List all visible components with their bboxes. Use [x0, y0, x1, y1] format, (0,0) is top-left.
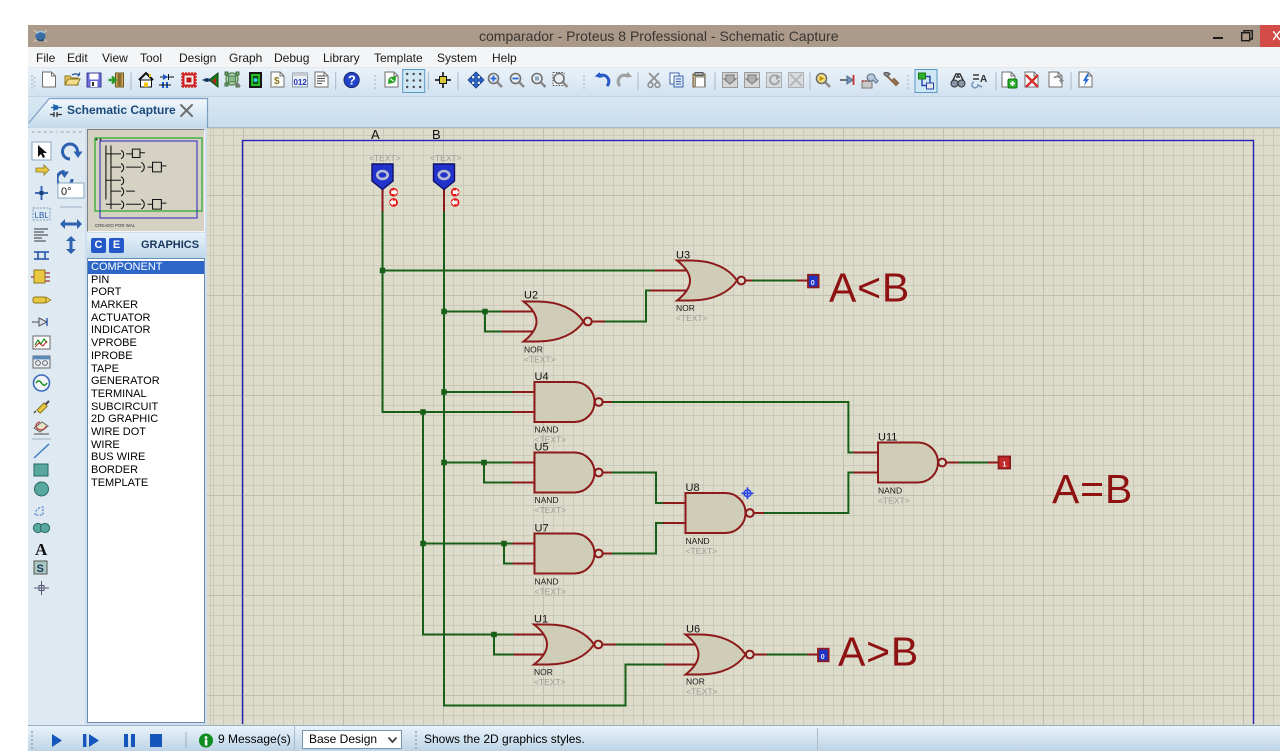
svg-text:U6: U6: [686, 624, 700, 636]
wire U1 input2 L: [494, 635, 514, 655]
junction node B to U2: [441, 309, 447, 315]
wire B to U2 inputs: [444, 311, 502, 313]
svg-text:<TEXT>: <TEXT>: [524, 355, 556, 365]
pin stubs U11: [854, 452, 879, 454]
svg-text:NAND: NAND: [686, 536, 710, 546]
junction node B to U5: [441, 460, 447, 466]
svg-text:<TEXT>: <TEXT>: [534, 677, 566, 687]
NAND gate U5: [535, 442, 603, 516]
pin stub terminal B: [443, 189, 445, 212]
svg-text:NAND: NAND: [535, 577, 559, 587]
svg-text:<TEXT>: <TEXT>: [535, 505, 567, 515]
svg-text:<TEXT>: <TEXT>: [535, 587, 567, 597]
pin stubs U8: [663, 502, 686, 504]
wire U5 output to U8 input1: [612, 473, 663, 504]
pin stub terminal A: [382, 189, 384, 212]
wire U5 input2 L: [484, 463, 513, 483]
svg-text:<TEXT>: <TEXT>: [686, 687, 718, 697]
logic state input B: [434, 164, 455, 190]
NOR gate U6: [686, 624, 754, 697]
wire U4 output to U11 input1: [612, 402, 854, 453]
svg-text:A>B: A>B: [838, 629, 919, 675]
NOR gate U2: [524, 290, 592, 365]
svg-text:B: B: [432, 127, 441, 142]
pin stubs U5: [513, 462, 535, 464]
wire U7 input feed: [423, 543, 513, 545]
NAND gate U8: [686, 482, 754, 556]
svg-text:NAND: NAND: [878, 486, 902, 496]
NAND gate U4: [535, 371, 603, 445]
svg-text:NOR: NOR: [534, 667, 553, 677]
svg-text:NOR: NOR: [676, 303, 695, 313]
svg-text:U4: U4: [535, 371, 549, 383]
pin stubs U1: [514, 634, 547, 636]
junction node U1 input pair: [491, 632, 497, 638]
junction node U7 input pair: [501, 541, 507, 547]
svg-text:<TEXT>: <TEXT>: [878, 496, 910, 506]
pin stub probe A>B: [808, 654, 819, 656]
wire U6 output to probe A>B: [767, 654, 808, 656]
svg-text:<TEXT>: <TEXT>: [676, 313, 708, 323]
pin stub probe A=B: [988, 462, 999, 464]
NAND gate U11: [878, 432, 946, 506]
NOR gate U3: [676, 250, 745, 324]
logic state input A: [372, 164, 393, 190]
junction node U2 input pair: [482, 309, 488, 315]
svg-text:U11: U11: [878, 432, 897, 444]
wire U8 output to U11 input2: [764, 473, 854, 514]
pin stubs U2: [502, 311, 536, 313]
marker arrows A: [389, 188, 398, 207]
junction node A to U3: [380, 268, 386, 274]
wire U2 input2 L: [485, 312, 502, 332]
wire B to U4 input1: [444, 391, 513, 393]
logic probe A<B showing 0: [808, 275, 819, 288]
svg-text:<TEXT>: <TEXT>: [430, 153, 462, 163]
svg-text:U3: U3: [676, 250, 690, 262]
svg-text:NAND: NAND: [535, 495, 559, 505]
wire B vertical from terminal B: [444, 211, 665, 706]
cursor crosshair near U8: [742, 487, 754, 499]
wire U7 input2 L: [504, 544, 513, 564]
logic probe A=B showing 1: [999, 457, 1011, 469]
wire A vertical from terminal A: [383, 211, 513, 412]
wire A-branch vertical to U7 and U1: [423, 412, 514, 635]
svg-text:<TEXT>: <TEXT>: [369, 153, 401, 163]
junction node U7 feed: [420, 541, 426, 547]
wire U7 output to U8 input2: [612, 523, 663, 554]
svg-text:<TEXT>: <TEXT>: [686, 546, 718, 556]
svg-text:NAND: NAND: [535, 425, 559, 435]
svg-text:NOR: NOR: [686, 677, 705, 687]
pin stubs U7: [513, 543, 535, 545]
svg-text:A<B: A<B: [829, 265, 910, 311]
svg-text:0: 0: [821, 654, 825, 661]
junction node B to U4: [441, 389, 447, 395]
pin stub probe A<B: [797, 280, 808, 282]
logic probe A>B showing 0: [818, 649, 829, 662]
wire U2 output to U3 input2: [605, 291, 650, 322]
NOR gate U1: [534, 614, 602, 688]
svg-text:U5: U5: [535, 442, 549, 454]
sheet border: [243, 141, 1254, 751]
wire B to U5 inputs: [444, 462, 513, 464]
wire A to U3 input 1: [383, 270, 656, 272]
NAND gate U7: [535, 523, 603, 597]
wire U1 output to U6 input1: [616, 644, 665, 646]
svg-text:A: A: [371, 127, 380, 142]
svg-text:U8: U8: [686, 482, 700, 494]
pin stubs U3: [655, 270, 688, 272]
wire U11 output to probe A=B: [959, 462, 988, 464]
junction node A-branch: [420, 409, 426, 415]
junction node U5 input pair: [481, 460, 487, 466]
svg-text:U1: U1: [534, 614, 548, 626]
svg-text:U7: U7: [535, 523, 549, 535]
pin stubs U6: [665, 644, 697, 646]
svg-text:A=B: A=B: [1052, 466, 1133, 512]
svg-text:U2: U2: [524, 290, 538, 302]
wire U3 output to probe A<B: [752, 280, 797, 282]
svg-text:NOR: NOR: [524, 345, 543, 355]
svg-text:1: 1: [1003, 461, 1007, 468]
marker arrows B: [451, 188, 460, 207]
svg-text:0: 0: [811, 280, 815, 287]
pin stubs U4: [513, 391, 535, 393]
